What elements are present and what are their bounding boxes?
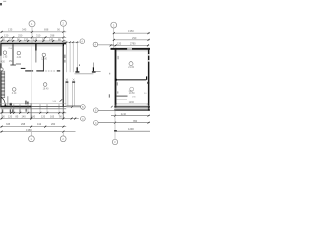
room tag 4 [12,88,16,92]
dim line C [1,40,67,42]
left wall [0,43,1,108]
svg-text:260: 260 [51,123,56,126]
right dim line T2 [114,39,150,41]
grid bubble 2 top [60,20,66,26]
grid stem 1 top [31,27,33,43]
bottom wall lower face [1,108,67,110]
bottom wall band: top face [1,102,67,104]
right plan left wall [115,48,117,108]
room tag 3 [42,53,45,56]
row bubble inner low [94,121,99,126]
door jamb stub [146,76,147,79]
bottom dim line D1 [0,112,66,114]
grid line 2 interior [62,46,64,103]
right dim line T1 [114,32,150,34]
shaft 1 lines [65,82,67,106]
svg-text:C: C [95,122,97,125]
interior wall face line [116,98,127,100]
svg-text:1380: 1380 [26,128,32,132]
right plan bottom wall band [114,104,150,106]
row bubble inner top leader [98,44,114,46]
bottom wall main right part [31,105,66,107]
grid bubble 1 bottom [29,136,35,142]
text 1480 vertical [26,108,27,111]
svg-text:290: 290 [132,36,137,40]
svg-text:1290: 1290 [129,101,135,104]
stair side edge [4,71,6,98]
svg-text:310: 310 [36,34,41,38]
svg-text:345: 345 [6,123,11,126]
shaft 2 x-mark [73,79,75,81]
row bubble inner top [93,42,98,47]
grid line 2 bottom crossing [62,103,64,119]
top wall inner face [1,45,63,47]
vertical dim text inside left wall [109,94,110,97]
partition x35.9 upper dark [35,43,37,51]
shaft 1 x-mark [66,79,68,81]
wall blob right [147,82,149,84]
room tag right plan [129,62,133,66]
wall seg y68.3 [21,67,26,69]
partition x13 end cap [10,64,16,66]
stair tag [0,68,3,71]
svg-text:698: 698 [44,28,49,32]
interior wall right plan [116,95,127,97]
right bottom dim line R2 (with inner bubble leader) [98,122,150,124]
svg-text:4.20: 4.20 [17,57,22,59]
svg-text:12.80: 12.80 [41,59,47,61]
inter-plan line right [93,71,100,73]
partition x43.4 [42,57,44,72]
svg-text:120: 120 [41,115,46,118]
grid stem 1 bottom [30,132,32,136]
right plan right wall [148,48,150,111]
svg-text:298: 298 [21,123,26,126]
door jamb dark seg [57,70,60,72]
door swing arc [1,98,5,107]
svg-text:120: 120 [8,115,13,118]
staircase [1,72,5,97]
svg-text:1290: 1290 [128,127,134,131]
annex leader line top right [64,41,79,43]
lintel dashes [45,70,55,72]
window jamb ticks bottom wall [11,104,59,108]
dark tick at stem crossing [114,130,117,132]
extension lines wall to dims [2,109,47,118]
door arrow tip [5,105,7,108]
svg-text:412: 412 [37,123,42,126]
door jamb line [7,96,9,106]
section marker 2 bar [93,67,94,71]
partition x13 [12,44,14,64]
annex verticals [66,42,77,72]
svg-text:120: 120 [4,34,9,38]
speck marks below wall [10,109,11,113]
interior wall y79.8 right plan [116,79,146,81]
svg-text:135: 135 [8,28,13,32]
svg-text:165: 165 [50,115,55,118]
bottom bubble right plan [112,139,117,144]
svg-text:16.40: 16.40 [43,88,49,90]
ticks on annex leader [66,41,79,43]
grid line 1 interior [31,44,33,103]
bottom wall extension line to annex [66,105,80,107]
wall seg y64 [16,63,21,65]
right bottom dim line R1 [111,115,150,117]
top wall inner face right plan [116,50,147,52]
svg-text:140: 140 [22,115,27,118]
section marker 1 foot [75,71,79,72]
dim line B [1,36,67,38]
shaft 2 lines [72,82,74,106]
interior wall y70.8 seg 2 [36,70,44,72]
tick at B leader [71,106,73,108]
dim line A [1,31,67,33]
room tag lower right plan [130,87,134,91]
dim tick left of wall bottom [111,106,113,108]
right wall [63,43,64,107]
svg-text:298: 298 [50,34,55,38]
row bubble B [81,105,86,110]
ticks on dim line A [1,31,65,33]
partition x35.9 lower [35,51,37,63]
row bubble A right of left plan [80,39,85,44]
vertical dim text along right wall [64,55,65,59]
row bubble C (right end of D2) [81,116,86,121]
grid bubble 1 top [29,21,35,27]
shaft 1 cap [66,81,69,82]
bottom dim line D3 [0,126,66,128]
bottom stem right plan [114,111,116,140]
svg-text:10.50: 10.50 [129,93,135,95]
top wall [0,43,66,45]
bottom wall main dark left part [0,106,31,108]
svg-text:150: 150 [9,60,14,63]
grid line 1 bottom crossing [30,103,32,119]
threshold blob [10,103,12,106]
interior wall y70.8 seg 1 [25,70,33,72]
svg-text:345: 345 [22,28,27,32]
wall tick right side [60,99,63,101]
room tag 1 [3,51,6,54]
section marker 2 foot [92,71,96,72]
shaft 2 cap [72,81,75,82]
grid stem 2 bottom [62,132,64,136]
room tag 5 [43,83,47,87]
extension line x59 [58,109,60,116]
interior dim line [116,103,148,105]
top bubble right plan [111,22,117,28]
window gaps in right wall [148,54,150,56]
right plan top wall [111,48,151,50]
window gap left wall [0,56,2,63]
grid bubble 2 bottom [60,136,66,142]
top stem right plan [113,28,115,48]
vertical text speck below wall [117,82,118,85]
right bottom dim line R3 [115,130,151,132]
vertical text speck at left wall [118,56,119,59]
svg-text:21.60: 21.60 [128,67,134,69]
window gap top wall right plan [127,48,132,50]
right dim line T3 [111,44,150,46]
row bubble inner mid leader [98,109,114,111]
title speck top-left [0,3,2,5]
small speck near section line [109,73,110,75]
entry door dark patch [25,101,26,105]
section marker 2 light [92,63,94,68]
svg-text:1.95: 1.95 [3,57,8,59]
row bubble inner mid [94,108,99,113]
grid stem 2 top [62,26,64,42]
bottom dim line D4 [0,131,75,133]
row bubble B leader [66,106,80,108]
bottom dim line D2 [0,118,78,120]
svg-text:250: 250 [18,34,23,38]
svg-text:430: 430 [1,60,6,63]
svg-text:1350: 1350 [128,29,134,33]
svg-text:C: C [82,118,84,121]
room tag 2 [17,51,20,54]
section marker 1 bar [77,67,78,71]
junction blob at left wall [115,79,117,81]
svg-text:3.10: 3.10 [12,93,17,95]
inter-plan line left [75,73,94,75]
